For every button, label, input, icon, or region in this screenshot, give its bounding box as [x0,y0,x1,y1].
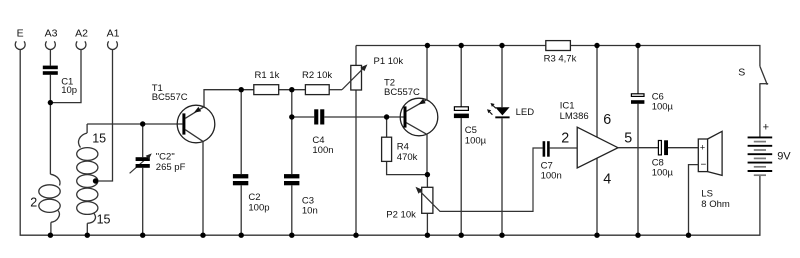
svg-text:+: + [700,142,705,152]
svg-text:2: 2 [561,131,569,147]
svg-text:15: 15 [97,213,111,227]
svg-text:100n: 100n [312,145,333,156]
svg-text:10p: 10p [61,85,77,96]
svg-text:100p: 100p [248,202,269,213]
svg-text:470k: 470k [397,152,418,163]
svg-text:100µ: 100µ [652,168,674,179]
svg-text:R1 1k: R1 1k [255,70,280,81]
svg-text:−: − [701,159,707,170]
svg-text:100n: 100n [541,171,562,182]
svg-text:C2: C2 [248,192,260,203]
svg-text:LM386: LM386 [560,111,589,122]
svg-text:2: 2 [30,196,37,210]
svg-text:A2: A2 [75,27,88,39]
svg-text:9V: 9V [777,151,791,163]
svg-text:BC557C: BC557C [384,87,420,98]
svg-text:R3 4,7k: R3 4,7k [544,54,577,65]
svg-text:8 Ohm: 8 Ohm [701,199,730,210]
svg-text:10n: 10n [302,206,318,217]
svg-text:LED: LED [516,107,535,118]
svg-text:A1: A1 [107,27,120,39]
svg-text:R4: R4 [397,141,409,152]
svg-text:LS: LS [701,189,713,200]
svg-text:265 pF: 265 pF [156,162,186,173]
svg-text:IC1: IC1 [560,100,575,111]
svg-text:P2 10k: P2 10k [386,210,416,221]
svg-text:P1 10k: P1 10k [374,56,404,67]
svg-text:"C2": "C2" [156,152,175,163]
svg-text:15: 15 [92,132,106,146]
svg-text:R2 10k: R2 10k [302,70,332,81]
svg-text:100µ: 100µ [465,135,487,146]
svg-text:BC557C: BC557C [152,92,188,103]
svg-text:E: E [17,27,24,39]
svg-text:A3: A3 [45,27,58,39]
svg-text:100µ: 100µ [652,102,674,113]
svg-text:+: + [763,121,769,133]
svg-text:S: S [738,66,745,78]
svg-text:4: 4 [603,171,611,187]
svg-text:5: 5 [624,131,632,147]
svg-text:6: 6 [603,112,611,128]
